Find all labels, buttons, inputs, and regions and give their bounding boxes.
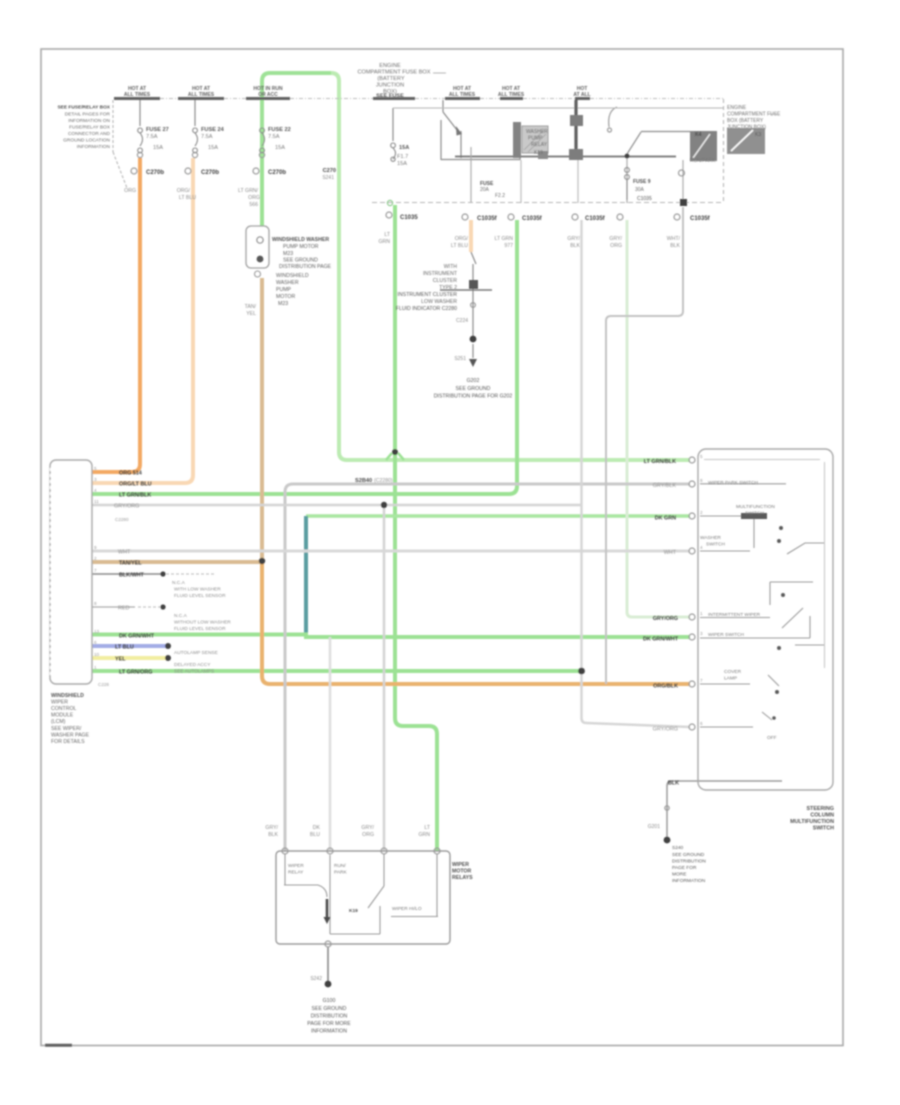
svg-text:SEE AUTOLAMPS: SEE AUTOLAMPS: [174, 669, 214, 675]
svg-text:F2.2: F2.2: [495, 193, 505, 199]
svg-text:RELAY: RELAY: [531, 142, 548, 148]
svg-text:C1035f: C1035f: [585, 216, 606, 222]
svg-text:C1035: C1035: [637, 196, 652, 202]
svg-text:15A: 15A: [397, 161, 407, 167]
svg-text:FUSE 24: FUSE 24: [201, 127, 225, 133]
svg-text:7: 7: [94, 568, 97, 573]
svg-text:WHT: WHT: [664, 550, 677, 556]
svg-text:S2B40: S2B40: [355, 478, 372, 484]
svg-text:1: 1: [700, 611, 703, 616]
svg-text:JUNCTION: JUNCTION: [376, 83, 404, 89]
svg-text:PUMP MOTOR: PUMP MOTOR: [283, 244, 319, 250]
svg-text:15A: 15A: [153, 145, 163, 151]
svg-text:977: 977: [504, 243, 513, 249]
svg-text:COVER: COVER: [724, 669, 742, 675]
svg-text:9: 9: [94, 545, 97, 550]
svg-text:FUSE/RELAY BOX: FUSE/RELAY BOX: [69, 125, 111, 131]
svg-text:C270b: C270b: [268, 170, 286, 176]
svg-text:LT GRN/BLK: LT GRN/BLK: [119, 493, 151, 499]
svg-text:G202: G202: [467, 378, 480, 384]
svg-text:4: 4: [94, 488, 97, 493]
svg-text:ALL TIMES: ALL TIMES: [449, 92, 476, 98]
svg-text:SEE FUSE/RELAY BOX: SEE FUSE/RELAY BOX: [57, 105, 110, 111]
svg-text:3: 3: [700, 631, 703, 636]
svg-text:ALL TIMES: ALL TIMES: [498, 92, 525, 98]
svg-text:C1035: C1035: [400, 215, 418, 221]
svg-text:PUMP: PUMP: [528, 136, 543, 142]
svg-text:INFORMATION: INFORMATION: [311, 1029, 347, 1035]
svg-text:LT: LT: [384, 232, 390, 238]
svg-text:M23: M23: [278, 301, 288, 307]
svg-text:YEL: YEL: [246, 311, 256, 317]
svg-text:AT ALL: AT ALL: [573, 92, 590, 98]
svg-text:LT GRN/: LT GRN/: [238, 188, 259, 194]
svg-text:GRN: GRN: [378, 239, 390, 245]
svg-text:DK: DK: [313, 825, 321, 831]
svg-text:(BATTERY: (BATTERY: [377, 76, 404, 82]
svg-text:7.5A: 7.5A: [146, 134, 158, 140]
svg-text:WIPER HI/LO: WIPER HI/LO: [392, 906, 422, 912]
svg-text:COLUMN: COLUMN: [810, 813, 834, 819]
svg-text:GRY/ORG: GRY/ORG: [653, 727, 678, 733]
svg-text:WINDSHIELD: WINDSHIELD: [276, 273, 309, 279]
svg-text:C270b: C270b: [201, 170, 219, 176]
svg-text:FUSE 22: FUSE 22: [268, 127, 291, 133]
svg-text:8: 8: [94, 601, 97, 606]
svg-text:LT BLU: LT BLU: [179, 195, 196, 201]
svg-text:ALL TIMES: ALL TIMES: [188, 92, 215, 98]
svg-text:(LCM): (LCM): [51, 719, 66, 725]
svg-text:DK GRN: DK GRN: [655, 516, 676, 522]
svg-text:20A: 20A: [480, 187, 490, 193]
svg-text:C228: C228: [98, 682, 109, 687]
svg-text:SEE GROUND: SEE GROUND: [312, 1006, 347, 1012]
svg-text:MODULE: MODULE: [51, 713, 74, 719]
svg-text:JUNCTION BOX): JUNCTION BOX): [727, 125, 766, 131]
svg-text:SWITCH: SWITCH: [813, 826, 834, 832]
svg-text:ALL TIMES: ALL TIMES: [124, 92, 151, 98]
svg-text:LT: LT: [424, 825, 430, 831]
svg-text:SEE GROUND: SEE GROUND: [283, 258, 318, 264]
svg-text:RUN/PARK: RUN/PARK: [690, 158, 716, 164]
svg-text:ORG: ORG: [362, 832, 374, 838]
svg-text:WINDSHIELD WASHER: WINDSHIELD WASHER: [272, 237, 329, 243]
svg-text:S240: S240: [672, 845, 684, 851]
svg-text:G100: G100: [323, 998, 336, 1004]
svg-text:FLUID LEVEL SENSOR: FLUID LEVEL SENSOR: [174, 626, 226, 632]
svg-text:DK GRN/WHT: DK GRN/WHT: [119, 634, 155, 640]
svg-text:WIPER: WIPER: [51, 700, 68, 706]
svg-text:GRY/BLK: GRY/BLK: [653, 483, 677, 489]
svg-text:GRY/ORG: GRY/ORG: [653, 616, 678, 622]
svg-text:RELAY: RELAY: [288, 870, 304, 876]
svg-text:K19: K19: [349, 908, 358, 914]
svg-text:INFORMATION: INFORMATION: [672, 878, 706, 884]
svg-text:TAN/YEL: TAN/YEL: [119, 561, 142, 567]
svg-text:5: 5: [94, 466, 97, 471]
svg-text:ORG: ORG: [610, 243, 622, 249]
svg-text:PAGE FOR: PAGE FOR: [672, 865, 697, 871]
svg-text:C224: C224: [456, 318, 468, 324]
svg-text:WASHER: WASHER: [700, 535, 721, 541]
svg-text:K3: K3: [755, 132, 761, 138]
svg-text:RED: RED: [118, 606, 129, 612]
svg-text:ORG: ORG: [124, 188, 136, 194]
svg-text:S242: S242: [310, 976, 322, 982]
svg-text:WASHER: WASHER: [526, 129, 548, 135]
svg-text:2: 2: [94, 556, 97, 561]
svg-text:GRY/ORG: GRY/ORG: [114, 504, 139, 510]
svg-text:3: 3: [94, 477, 97, 482]
svg-text:ORG/: ORG/: [177, 188, 191, 194]
svg-text:INSTRUMENT CLUSTER: INSTRUMENT CLUSTER: [397, 292, 457, 298]
svg-text:DISTRIBUTION: DISTRIBUTION: [672, 859, 706, 865]
svg-text:ORG/LT BLU: ORG/LT BLU: [119, 482, 152, 488]
svg-text:LT BLU: LT BLU: [451, 243, 468, 249]
svg-text:2: 2: [700, 510, 703, 515]
svg-text:DISTRIBUTION: DISTRIBUTION: [311, 1014, 348, 1020]
svg-text:WASHER: WASHER: [276, 280, 299, 286]
svg-text:ORG/BLK: ORG/BLK: [653, 684, 678, 690]
svg-text:GRN: GRN: [418, 832, 430, 838]
svg-text:BLK/WHT: BLK/WHT: [119, 573, 145, 579]
svg-text:5: 5: [700, 454, 703, 459]
svg-text:30A: 30A: [635, 187, 645, 193]
svg-text:DISTRIBUTION PAGE FOR G202: DISTRIBUTION PAGE FOR G202: [434, 394, 513, 400]
svg-text:C1035f: C1035f: [522, 216, 543, 222]
svg-text:INFORMATION: INFORMATION: [77, 144, 111, 150]
svg-text:PARK: PARK: [334, 870, 348, 876]
svg-text:RUN/: RUN/: [334, 863, 346, 869]
svg-text:13: 13: [94, 629, 100, 634]
svg-text:STEERING: STEERING: [806, 806, 834, 812]
svg-text:(C2280): (C2280): [374, 478, 393, 484]
svg-text:LT GRN/BLK: LT GRN/BLK: [644, 459, 676, 465]
svg-text:8: 8: [700, 478, 703, 483]
svg-text:LT GRN: LT GRN: [494, 236, 513, 242]
svg-text:C1035f: C1035f: [690, 216, 711, 222]
svg-text:OR ACC: OR ACC: [258, 92, 278, 98]
svg-text:GRY/: GRY/: [265, 825, 278, 831]
svg-text:SEE WIPER/: SEE WIPER/: [51, 726, 82, 732]
svg-text:S241: S241: [322, 175, 334, 181]
svg-text:TAN/: TAN/: [245, 304, 257, 310]
svg-text:CONTROL: CONTROL: [51, 706, 76, 712]
svg-text:DK GRN/WHT: DK GRN/WHT: [643, 637, 679, 643]
svg-text:11: 11: [94, 499, 99, 504]
svg-text:DISTRIBUTION PAGE: DISTRIBUTION PAGE: [279, 264, 332, 270]
svg-text:15A: 15A: [399, 145, 409, 151]
svg-text:N.C.A: N.C.A: [172, 580, 186, 586]
svg-text:FUSE 9: FUSE 9: [633, 179, 651, 185]
svg-text:6: 6: [94, 640, 97, 645]
svg-text:SEE GROUND: SEE GROUND: [456, 386, 491, 392]
svg-text:C2280: C2280: [115, 517, 129, 522]
svg-text:PUMP: PUMP: [276, 287, 292, 293]
svg-text:INSTRUMENT: INSTRUMENT: [423, 271, 458, 277]
svg-text:DELAYED ACCY: DELAYED ACCY: [174, 662, 211, 668]
svg-text:BLK: BLK: [670, 243, 680, 249]
svg-text:WIPER: WIPER: [288, 863, 304, 869]
svg-text:MULTIFUNCTION: MULTIFUNCTION: [790, 819, 834, 825]
svg-text:ORG: ORG: [248, 195, 260, 201]
svg-text:SWITCH: SWITCH: [706, 542, 725, 548]
svg-text:7.5A: 7.5A: [268, 134, 280, 140]
svg-text:BLK: BLK: [268, 832, 278, 838]
svg-text:PAGE FOR MORE: PAGE FOR MORE: [307, 1021, 351, 1027]
svg-text:FUSE 27: FUSE 27: [146, 127, 169, 133]
svg-text:566: 566: [249, 202, 258, 208]
svg-text:MOTOR: MOTOR: [452, 869, 471, 875]
svg-text:AUTOLAMP SENSE: AUTOLAMP SENSE: [174, 650, 218, 656]
svg-text:4: 4: [700, 545, 703, 550]
svg-text:15A: 15A: [275, 145, 285, 151]
svg-text:WHT: WHT: [118, 550, 131, 556]
svg-text:OFF: OFF: [767, 735, 777, 741]
svg-text:INTERMITTENT WIPER: INTERMITTENT WIPER: [708, 612, 761, 618]
svg-text:BLK: BLK: [668, 781, 679, 787]
svg-text:MOTOR: MOTOR: [276, 294, 295, 300]
svg-text:SEE GROUND: SEE GROUND: [672, 852, 705, 858]
svg-text:ENGINE: ENGINE: [379, 63, 401, 69]
svg-text:WITHOUT LOW WASHER: WITHOUT LOW WASHER: [174, 620, 231, 626]
svg-text:WASHER PAGE: WASHER PAGE: [51, 733, 90, 739]
svg-text:TYPE 2: TYPE 2: [439, 285, 457, 291]
svg-text:FOR DETAILS: FOR DETAILS: [51, 739, 85, 745]
svg-text:C1035f: C1035f: [477, 216, 498, 222]
svg-text:7: 7: [700, 678, 703, 683]
svg-text:G201: G201: [648, 824, 660, 830]
svg-text:S251: S251: [454, 356, 466, 362]
svg-text:WINDSHIELD: WINDSHIELD: [51, 693, 84, 699]
svg-text:GRY/: GRY/: [361, 825, 374, 831]
svg-text:ENGINE: ENGINE: [727, 105, 747, 111]
svg-text:LT GRN/ORG: LT GRN/ORG: [119, 670, 152, 676]
svg-text:C270: C270: [323, 168, 336, 174]
svg-text:15A: 15A: [208, 145, 218, 151]
svg-text:MORE: MORE: [672, 872, 686, 878]
svg-text:CLUSTER: CLUSTER: [433, 278, 457, 284]
svg-text:ORG/: ORG/: [455, 236, 469, 242]
svg-text:GROUND LOCATION: GROUND LOCATION: [63, 138, 110, 144]
svg-text:WITH: WITH: [444, 264, 458, 270]
svg-text:FLUID LEVEL SENSOR: FLUID LEVEL SENSOR: [174, 593, 226, 599]
svg-text:ORG 514: ORG 514: [119, 471, 142, 477]
svg-text:RELAYS: RELAYS: [452, 875, 473, 881]
svg-text:SWITCH: SWITCH: [745, 511, 764, 517]
svg-text:GRY/: GRY/: [567, 236, 580, 242]
svg-text:1: 1: [94, 665, 97, 670]
svg-text:BLU: BLU: [310, 832, 320, 838]
svg-text:COMPARTMENT FUSE BOX: COMPARTMENT FUSE BOX: [357, 70, 430, 76]
svg-text:F1.7: F1.7: [397, 154, 408, 160]
svg-text:C270b: C270b: [146, 170, 164, 176]
svg-text:M23: M23: [283, 251, 293, 257]
svg-text:GRY/: GRY/: [609, 236, 622, 242]
svg-text:N.C.A: N.C.A: [174, 613, 188, 619]
svg-text:YEL: YEL: [115, 657, 126, 663]
svg-text:BOX (BATTERY: BOX (BATTERY: [727, 118, 764, 124]
svg-text:WIPER SWITCH: WIPER SWITCH: [708, 632, 745, 638]
svg-text:INFORMATION ON: INFORMATION ON: [68, 118, 110, 124]
svg-text:MULTIFUNCTION: MULTIFUNCTION: [736, 504, 775, 510]
svg-text:CONNECTOR AND: CONNECTOR AND: [68, 131, 111, 137]
svg-text:LAMP: LAMP: [724, 676, 737, 682]
svg-text:BLK: BLK: [570, 243, 580, 249]
svg-text:WITH LOW WASHER: WITH LOW WASHER: [174, 587, 221, 593]
svg-text:WIPER PARK SWITCH: WIPER PARK SWITCH: [708, 480, 759, 486]
svg-text:DETAIL PAGES FOR: DETAIL PAGES FOR: [65, 112, 111, 118]
svg-text:WIPER: WIPER: [452, 862, 469, 868]
svg-text:7.5A: 7.5A: [201, 134, 213, 140]
svg-text:10: 10: [94, 652, 100, 657]
svg-text:K19: K19: [534, 150, 543, 156]
svg-text:LT BLU: LT BLU: [115, 645, 134, 651]
svg-text:SEE FUSE: SEE FUSE: [376, 94, 404, 100]
svg-text:LOW WASHER: LOW WASHER: [421, 299, 457, 305]
svg-text:K4: K4: [695, 132, 702, 138]
svg-text:FLUID INDICATOR C2280: FLUID INDICATOR C2280: [396, 306, 457, 312]
svg-text:6: 6: [700, 721, 703, 726]
svg-text:WHT/: WHT/: [667, 236, 681, 242]
